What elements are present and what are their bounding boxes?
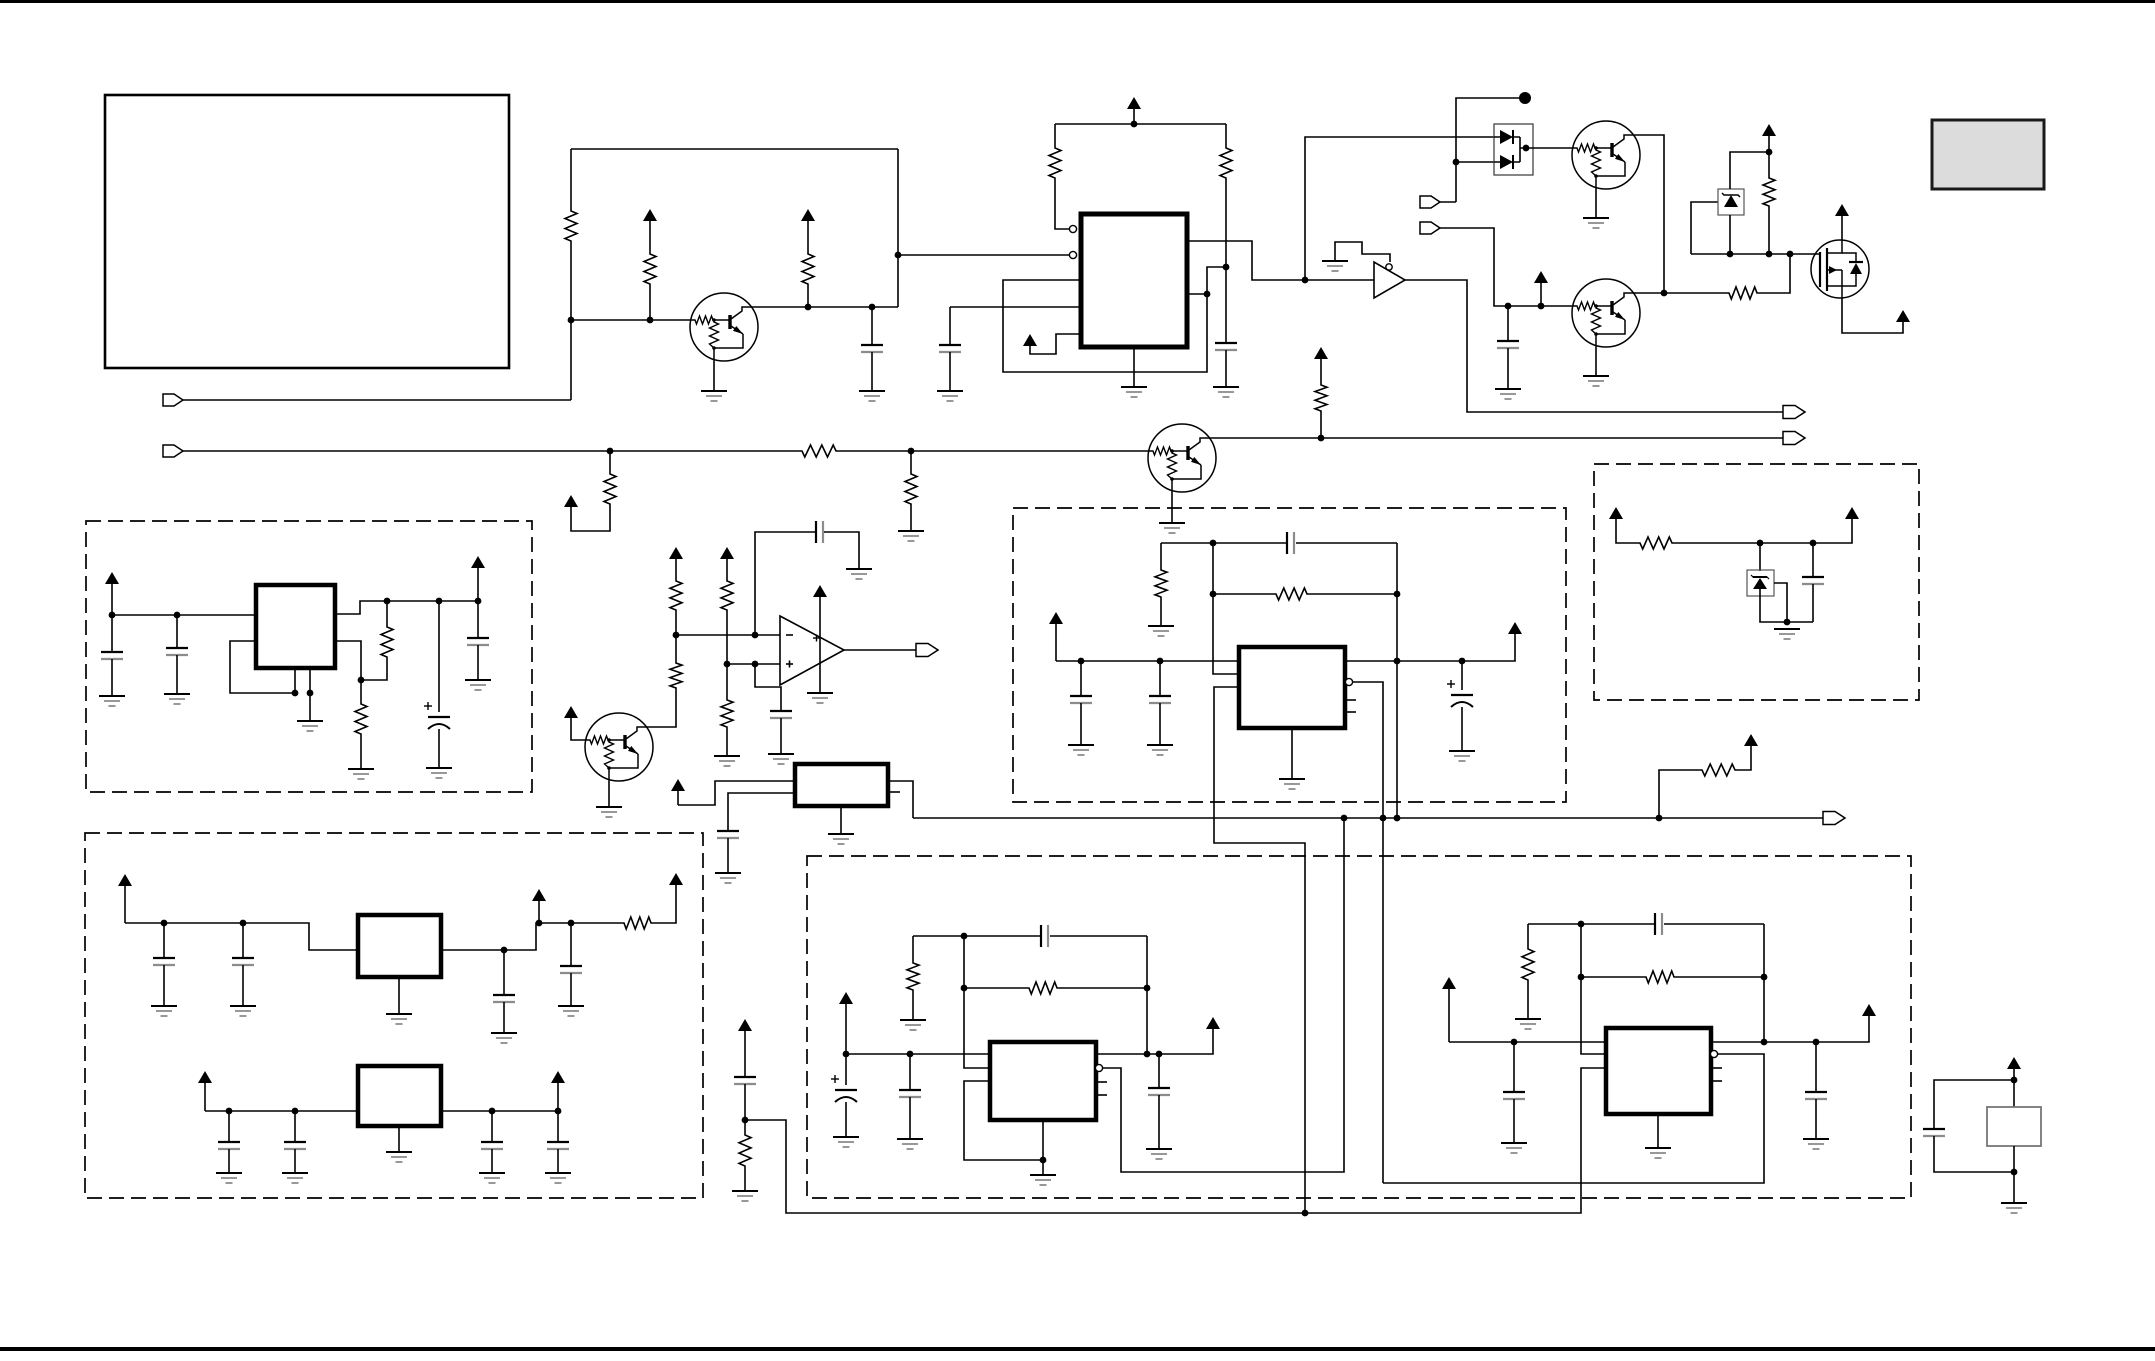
junction U2 gnd2	[307, 690, 314, 697]
wire C26 gnd lead	[845, 1102, 847, 1137]
wire U6 fb riser	[1763, 924, 1765, 1042]
wire fb4 res line right	[1309, 593, 1397, 595]
wire C21 gnd lead	[1080, 703, 1082, 745]
capacitor C26 polarized	[831, 1075, 857, 1102]
resistor R19	[355, 702, 367, 736]
wire U4 out	[1345, 634, 1515, 661]
junction U3a C13	[161, 920, 168, 927]
junction clk-U4 POK	[1380, 815, 1387, 822]
wire C27 gnd lead	[909, 1097, 911, 1139]
wire fb6 vertical	[1581, 924, 1606, 1054]
ground C19	[479, 1173, 505, 1183]
wire U4 pok	[1353, 682, 1383, 1183]
ground C3	[1213, 387, 1239, 397]
junction U4 C22	[1157, 658, 1164, 665]
wire Q1 emitter	[713, 361, 715, 391]
junction U4 C21	[1078, 658, 1085, 665]
wire C29 lead	[1158, 1054, 1160, 1087]
capacitor C32	[1805, 1092, 1827, 1099]
wire R10 leads	[1768, 152, 1770, 176]
wire R20 to arrow	[653, 885, 676, 923]
ground R21	[1148, 626, 1174, 636]
capacitor C7	[717, 831, 739, 838]
wire Q4 collector	[1640, 135, 1664, 293]
wire R13 down	[726, 612, 728, 664]
wire U4 gnd	[1291, 728, 1293, 779]
wire C29 gnd lead	[1158, 1095, 1160, 1149]
wire C17 gnd lead	[228, 1149, 230, 1173]
wire U2 out arrow	[477, 568, 479, 601]
ground C16	[558, 1006, 584, 1016]
ground R24	[900, 1020, 926, 1030]
capacitor C4	[1497, 341, 1519, 348]
capacitor C1	[861, 345, 883, 352]
junction D2 tap	[1453, 159, 1460, 166]
output connector RST	[1783, 406, 1805, 419]
power VCC arrow opamp	[813, 585, 827, 597]
wire U5 sense loop	[964, 1081, 1042, 1160]
wire U5 nc stub1	[1096, 1081, 1107, 1083]
bubble buffer enable	[1386, 264, 1392, 270]
wire U6 input rail	[1449, 1041, 1606, 1043]
power VCC arrow R16	[1744, 734, 1758, 746]
ground battery	[2001, 1203, 2027, 1213]
power VCC arrow Q5	[1534, 271, 1548, 306]
ground R7	[898, 531, 924, 541]
ground R23	[732, 1191, 758, 1201]
wire C6 path	[755, 664, 781, 710]
power VCC arrow Q6 drain	[1835, 204, 1849, 240]
resistor R8 in bus2	[800, 445, 838, 457]
resistor R18	[381, 625, 393, 659]
power VCC arrow gate	[1762, 124, 1776, 152]
wire R16 to arrow	[1737, 746, 1751, 770]
power VCC arrow U1EN	[1023, 334, 1081, 354]
wire zener top lead	[1730, 152, 1769, 189]
capacitor C23	[1287, 532, 1294, 554]
power VCC arrow S2	[1845, 507, 1859, 519]
wire U6 gnd	[1657, 1114, 1659, 1148]
wire C20 gnd lead	[557, 1149, 559, 1173]
wire fb4 res line left	[1213, 593, 1274, 595]
dashed box 3.3V regulator block	[1013, 508, 1566, 802]
junction gate-R10	[1766, 251, 1773, 258]
power VCC arrow R12	[669, 547, 683, 579]
ground C15	[491, 1033, 517, 1043]
wire C1 lead	[871, 307, 873, 344]
wire C18 lead	[294, 1111, 296, 1141]
wire Y1 en path	[728, 793, 795, 830]
junction U2 in C10	[174, 612, 181, 619]
wire C25 lead	[744, 1084, 746, 1120]
capacitor C24 polarized	[1447, 680, 1473, 707]
junction VCC rail U1	[1131, 121, 1138, 128]
junction S-zener	[1757, 540, 1764, 547]
junction U6 out fb	[1761, 1039, 1768, 1046]
wire U5 fb cap line	[913, 935, 1040, 937]
capacitor C3	[1215, 343, 1237, 350]
junction Q4-Q5 collector	[1661, 290, 1668, 297]
wire C3 to gnd	[1225, 350, 1227, 387]
wire Q4 emitter	[1595, 189, 1597, 218]
regulator U3b	[358, 1066, 441, 1126]
wire R3 to collector	[807, 286, 809, 307]
ground U1	[1121, 387, 1147, 397]
wire C24 gnd lead	[1461, 707, 1463, 751]
junction base node	[568, 317, 575, 324]
wire U6 fb cap line	[1528, 923, 1654, 925]
wire R14 gnd lead	[726, 729, 728, 756]
resistor R13	[721, 579, 733, 612]
wire C12 gnd lead	[477, 645, 479, 680]
wire C2 top lead	[949, 307, 951, 344]
wire C30 lead	[1513, 1042, 1515, 1091]
resistor R12	[670, 579, 682, 612]
capacitor C20	[547, 1142, 569, 1149]
wire U6 out	[1711, 1016, 1869, 1042]
wire bus VIN2 right	[838, 450, 1148, 452]
wire zener side tap	[1691, 202, 1718, 254]
wire Y1 gnd	[840, 806, 842, 834]
junction Q5 base VCC	[1538, 303, 1545, 310]
wire R9 to gate node	[1759, 254, 1790, 293]
ground C5	[846, 569, 872, 579]
ground R14	[714, 756, 740, 766]
junction Q3 coll R11	[1318, 435, 1325, 442]
ground D4	[1774, 629, 1800, 639]
capacitor C25	[734, 1077, 756, 1084]
junction base-R2	[647, 317, 654, 324]
wire out to buffer	[1305, 279, 1374, 281]
wire battery bottom link	[2013, 1146, 2015, 1203]
junction inv node	[673, 632, 680, 639]
wire C5 feedback left	[755, 532, 815, 635]
power VCC arrow R11	[1314, 347, 1328, 383]
off-page dot	[1519, 92, 1531, 104]
wire R24 gnd lead	[912, 992, 914, 1020]
bubble U6 POK	[1710, 1050, 1717, 1057]
junction U2 in C9	[109, 612, 116, 619]
resistor R26	[1522, 947, 1534, 982]
wire D4 side tap	[1774, 583, 1787, 622]
block diagram rectangle	[105, 95, 509, 368]
wire Q2 emitter	[608, 781, 610, 807]
ground C26	[833, 1137, 859, 1147]
junction U5 C26	[843, 1051, 850, 1058]
wire buffer out	[1405, 280, 1783, 412]
junction inv-cap	[752, 632, 759, 639]
ground C12	[465, 680, 491, 690]
capacitor C5	[816, 521, 823, 543]
wire U3b input rail	[205, 1110, 358, 1112]
wire C23 right	[1296, 542, 1397, 544]
wire C33 path top	[1934, 1080, 2014, 1128]
wire S1 rail	[1674, 519, 1852, 543]
capacitor C15	[493, 995, 515, 1002]
capacitor C12	[467, 638, 489, 645]
wire buffer EN	[1335, 242, 1390, 262]
capacitor C11 polarized	[424, 702, 450, 729]
wire C4 gnd lead	[1507, 348, 1509, 389]
ground R19	[348, 769, 374, 779]
junction U4 out C24	[1459, 658, 1466, 665]
power VCC arrow A1	[643, 209, 657, 252]
wire bus VIN1	[183, 399, 571, 401]
wire R10 bottom	[1768, 208, 1770, 254]
regulator U5	[990, 1042, 1096, 1120]
wire U4 nc stubs	[1345, 699, 1356, 701]
output connector CLK	[1823, 812, 1845, 825]
power VCC arrow U2	[105, 572, 119, 615]
gray module box	[1932, 120, 2044, 189]
wire R5 down	[1225, 180, 1227, 342]
junction U3b C20	[555, 1108, 562, 1115]
junction U3b C18	[292, 1108, 299, 1115]
ground C30	[1501, 1143, 1527, 1153]
wire R1 to top rail	[570, 149, 572, 209]
junction U3a out C15	[501, 947, 508, 954]
dashed box dual-LDO block	[85, 833, 703, 1198]
wire R21 gnd lead	[1160, 599, 1162, 626]
wire C17 lead	[228, 1111, 230, 1141]
wire sense net	[745, 1068, 1606, 1213]
junction fb5 mid	[961, 985, 968, 992]
wire R23 gnd lead	[744, 1168, 746, 1191]
capacitor C30	[1503, 1092, 1525, 1099]
wire Q3 emitter	[1171, 492, 1173, 523]
wire R15 top	[675, 635, 677, 661]
junction U4 out fb	[1394, 658, 1401, 665]
wire diode common	[1519, 137, 1521, 162]
wire dot to J3 riser	[1456, 98, 1525, 202]
junction Q5 base C4	[1505, 303, 1512, 310]
wire R26 top lead	[1527, 924, 1529, 947]
capacitor C14	[232, 958, 254, 965]
wire C13 gnd lead	[163, 965, 165, 1006]
wire C20 lead	[557, 1111, 559, 1141]
resistor R16 pullup	[1700, 764, 1737, 776]
junction U6 C30	[1511, 1039, 1518, 1046]
capacitor C29	[1148, 1088, 1170, 1095]
resistor R10 gate pullup	[1763, 176, 1775, 208]
IC U1 supervisor	[1081, 214, 1187, 347]
capacitor C9	[101, 652, 123, 659]
resistor R20	[622, 917, 653, 929]
wire R11 to bus	[1320, 413, 1322, 438]
wire U2 out step	[335, 601, 478, 614]
junction battery top	[2011, 1077, 2018, 1084]
junction VCC-R10	[1766, 149, 1773, 156]
wire C32 lead	[1815, 1042, 1817, 1091]
wire C15 lead	[503, 950, 505, 994]
ground C2	[937, 391, 963, 401]
wire U5 gnd	[1042, 1120, 1044, 1175]
junction fb5 top	[961, 933, 968, 940]
junction collector-R3	[805, 304, 812, 311]
ground C9	[99, 696, 125, 706]
wire U4 sense loop	[1214, 687, 1305, 1213]
wire U5 fb riser	[1146, 936, 1148, 1054]
power VCC arrow Y1	[671, 779, 685, 805]
wire U4 out riser	[1396, 543, 1398, 818]
wire R5 top lead	[1225, 124, 1227, 146]
wire noninverting input	[727, 663, 780, 665]
resistor R27	[1644, 971, 1676, 983]
ground buffer EN	[1322, 261, 1348, 271]
wire to U1 /EN2	[898, 254, 1073, 256]
wire C19 gnd lead	[491, 1149, 493, 1173]
wire Q1 collector line	[758, 306, 898, 308]
ground C21	[1068, 745, 1094, 755]
wire C2 gnd lead	[949, 352, 951, 391]
wire fb6 res right	[1676, 976, 1764, 978]
ground C11	[426, 768, 452, 778]
resistor R4	[1049, 146, 1061, 180]
frame top border	[0, 0, 2155, 3]
wire loop right drop	[897, 149, 899, 307]
power VCC arrow A2	[801, 209, 815, 252]
wire C16 gnd lead	[570, 973, 572, 1006]
junction U5 out fb	[1144, 1051, 1151, 1058]
resistor R24	[907, 961, 919, 992]
junction U3b C17	[226, 1108, 233, 1115]
wire bus VIN2 left	[183, 450, 800, 452]
wire U4 fb cap line	[1161, 542, 1286, 544]
wire U4 input rail	[1056, 660, 1239, 662]
ground C4	[1495, 389, 1521, 399]
junction fb6 mid	[1578, 974, 1585, 981]
junction U5 C27	[907, 1051, 914, 1058]
ground C10	[164, 694, 190, 704]
wire R6 to arrow	[571, 506, 610, 531]
wire U1 gnd	[1133, 347, 1135, 387]
input connector J4	[1420, 222, 1440, 234]
power VCC arrow U5 out	[1206, 1017, 1220, 1029]
wire C18 gnd lead	[294, 1149, 296, 1173]
ground Q3	[1159, 523, 1185, 533]
wire U2 input rail	[112, 614, 256, 616]
capacitor C17	[218, 1142, 240, 1149]
ground Q4	[1583, 218, 1609, 228]
wire U3a out	[441, 923, 622, 950]
wire zener D4 top lead	[1759, 543, 1761, 571]
wire pok net U6	[1383, 1054, 1764, 1183]
zener D4 box	[1747, 570, 1774, 596]
ground C20	[545, 1173, 571, 1183]
wire C11 lead	[438, 601, 440, 712]
ground C32	[1803, 1139, 1829, 1149]
zener D4	[1753, 576, 1767, 578]
wire C14 gnd lead	[242, 965, 244, 1006]
input connector J2	[163, 445, 183, 457]
wire inverting input	[676, 634, 780, 636]
power VCC arrow U3a	[118, 874, 132, 923]
power VCC arrow Q2	[564, 706, 585, 740]
resistor R7	[905, 472, 917, 506]
bubble U4 POK	[1345, 678, 1352, 685]
wire J4 to Q5 base	[1439, 228, 1572, 306]
transistor Q5	[1572, 279, 1640, 347]
wire C24 lead	[1461, 661, 1463, 690]
wire fb5 res line	[964, 987, 1027, 989]
power VCC arrow U2 out	[471, 556, 485, 568]
wire R18 to fb	[361, 659, 387, 680]
wire diodes to Q4	[1520, 147, 1572, 149]
wire U5 nc stub2	[1096, 1094, 1107, 1096]
resistor R22	[1274, 588, 1309, 600]
wire Y1 out	[888, 781, 913, 818]
input connector J1	[163, 394, 183, 406]
wire R16 left lead	[1659, 770, 1700, 818]
bubble U1 /MR2	[1069, 251, 1076, 258]
capacitor C13	[153, 958, 175, 965]
ground U3a	[386, 1014, 412, 1024]
capacitor C31	[1655, 913, 1662, 935]
junction U3a C14	[240, 920, 247, 927]
capacitor C27	[899, 1090, 921, 1097]
wire U4 nc stub2	[1345, 711, 1356, 713]
wire R18 top lead	[386, 601, 388, 625]
junction bus2-R7	[908, 448, 915, 455]
resistor R15	[670, 661, 682, 690]
wire Q2 collector	[653, 690, 676, 727]
wire fb5 vertical	[964, 936, 990, 1068]
wire R19 gnd lead	[360, 736, 362, 769]
junction U5 gnd	[1040, 1157, 1047, 1164]
wire R23 top lead	[744, 1120, 746, 1133]
wire U5 out	[1096, 1029, 1213, 1054]
junction U3a arrow	[536, 920, 543, 927]
wire C15 gnd lead	[503, 1002, 505, 1033]
junction U2 gnd1	[292, 690, 299, 697]
wire top loop rail	[571, 148, 898, 150]
wire C10 lead	[176, 615, 178, 647]
junction U2 out C11	[436, 598, 443, 605]
capacitor C33	[1923, 1129, 1945, 1136]
diode D1	[1500, 130, 1513, 144]
wire R2 to base	[649, 286, 651, 320]
ground U3b	[386, 1152, 412, 1162]
input connector J3	[1420, 196, 1440, 208]
wire C16 lead	[570, 923, 572, 965]
wire R7 top lead	[910, 451, 912, 472]
wire U6 nc stub1	[1711, 1067, 1722, 1069]
wire clk net	[913, 817, 1823, 819]
capacitor C28	[1041, 925, 1048, 947]
wire pok net U5	[1103, 818, 1344, 1172]
wire fb6 res line	[1581, 976, 1644, 978]
resistor R2	[644, 252, 656, 286]
wire battery top link	[2013, 1080, 2015, 1107]
diode D2	[1500, 155, 1513, 169]
wire C33 path bottom	[1934, 1136, 2014, 1172]
resistor R17	[1638, 537, 1674, 549]
wire U3a gnd	[398, 977, 400, 1014]
wire zener bottom lead	[1729, 215, 1731, 254]
junction noninv-cap	[752, 661, 759, 668]
power VCC arrow U5	[839, 992, 853, 1054]
ground U5	[1030, 1175, 1056, 1185]
wire C6 gnd lead	[780, 718, 782, 754]
wire opamp output	[844, 649, 916, 651]
battery B1 box	[1987, 1107, 2041, 1146]
power VCC arrow divider	[738, 1019, 752, 1076]
power VCC arrow U1	[1127, 97, 1141, 124]
wire C30 gnd lead	[1513, 1099, 1515, 1143]
output connector PGOOD	[1783, 432, 1805, 445]
wire C9 gnd lead	[111, 659, 113, 696]
wire R4 top lead	[1054, 124, 1056, 146]
